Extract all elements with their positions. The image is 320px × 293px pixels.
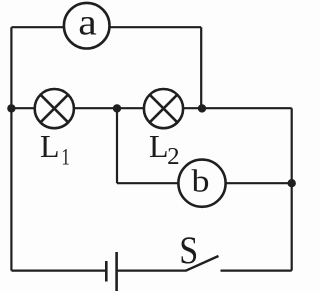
wire: lamp row horizontal: [11, 107, 291, 109]
wire: top horizontal: [11, 26, 201, 28]
meter b: [178, 160, 225, 207]
svg-text:S: S: [179, 229, 198, 272]
node: junction dot right side (b branch): [288, 179, 296, 187]
svg-text:1: 1: [61, 145, 70, 170]
wire: meter-b branch horizontal: [117, 182, 292, 184]
node: junction dot left: [7, 104, 15, 112]
wire: upper-right vertical (top loop down to node): [200, 27, 202, 108]
lamp L1: [35, 89, 74, 128]
svg-text:L: L: [40, 128, 60, 164]
lamp L2: [144, 89, 183, 128]
wire: bottom right (switch to corner): [221, 270, 292, 272]
node: junction dot right of L2: [198, 104, 206, 112]
label S: [179, 229, 198, 272]
wire: bottom middle (battery to switch): [117, 270, 186, 272]
battery: long plate (positive): [115, 252, 118, 291]
wire: meter-b branch vertical: [116, 108, 118, 183]
svg-text:2: 2: [167, 144, 180, 170]
label L2: [149, 128, 180, 170]
wire: left vertical: [10, 27, 12, 270]
svg-text:a: a: [78, 3, 97, 44]
battery: short plate (negative): [105, 261, 108, 282]
wire: bottom left (to battery): [11, 270, 106, 272]
svg-text:L: L: [149, 128, 169, 164]
label L1: [40, 128, 70, 170]
wire: right vertical: [291, 108, 293, 270]
svg-text:b: b: [192, 163, 210, 199]
switch S lever: [186, 256, 219, 271]
ammeter a: [64, 3, 110, 49]
node: junction dot between lamps: [113, 104, 121, 112]
